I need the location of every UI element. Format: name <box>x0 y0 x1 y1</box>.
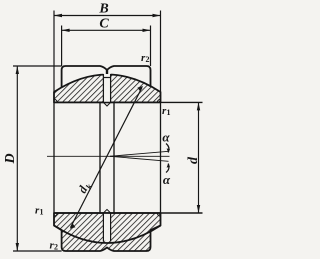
svg-text:C: C <box>99 17 109 32</box>
sphere diameter diagonal dk <box>71 88 143 228</box>
misalignment fan rays <box>110 151 170 161</box>
bore lubrication groove lines <box>99 102 101 213</box>
inner ring upper section (hatched) <box>54 75 161 103</box>
svg-text:B: B <box>98 2 108 17</box>
alpha arc arrow lower <box>166 164 169 173</box>
dimension C extension lines <box>61 26 63 67</box>
label d <box>186 156 201 164</box>
dimension B line <box>54 15 161 17</box>
sphere arc lower <box>54 226 161 244</box>
oil hole through lower inner ring <box>103 209 110 241</box>
svg-text:1: 1 <box>167 108 171 117</box>
dimension D extension lines <box>13 65 62 67</box>
svg-text:2: 2 <box>146 55 150 64</box>
bore corner chamfers <box>54 99 161 216</box>
label r1 bottom left <box>35 205 44 217</box>
svg-text:1: 1 <box>40 208 44 217</box>
bore edge right <box>160 102 162 213</box>
dimension d line <box>198 102 200 213</box>
dimension B extension lines <box>53 11 55 93</box>
dimension D line <box>16 66 18 251</box>
bore line bottom with d extension line <box>54 212 203 214</box>
label r1 right <box>162 105 171 117</box>
svg-text:D: D <box>3 153 18 164</box>
outer ring upper section outline (unhatched) <box>62 66 151 87</box>
label dk <box>75 179 95 197</box>
lower block (inner+outer rings, hatched) <box>54 213 161 251</box>
svg-text:2: 2 <box>54 243 58 252</box>
alpha arc arrow upper <box>166 144 169 153</box>
label D <box>3 153 18 164</box>
centerline (axis) <box>47 155 113 157</box>
oil hole through upper inner ring <box>103 71 110 106</box>
svg-text:α: α <box>162 130 170 145</box>
svg-text:d: d <box>186 156 201 164</box>
label r2 top right <box>141 52 150 64</box>
bore line top with d extension line <box>54 101 203 103</box>
label r2 bottom left <box>50 240 59 252</box>
dimension C line <box>62 29 151 31</box>
svg-text:α: α <box>163 172 171 187</box>
bore edge left <box>53 102 55 213</box>
